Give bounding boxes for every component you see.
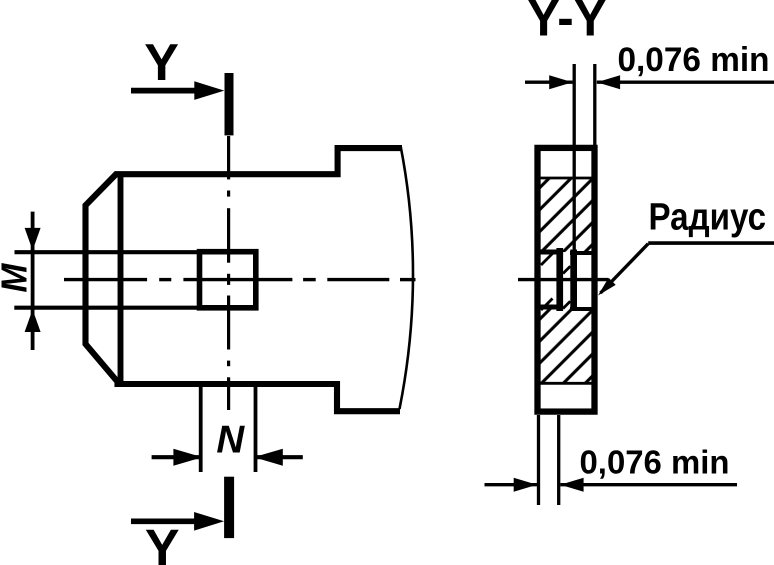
vertical centerline (dash-dot)	[227, 136, 230, 410]
horizontal centerline (dash-dot)	[64, 278, 416, 281]
slot rectangle (front view)	[200, 252, 256, 308]
section centerline	[518, 278, 608, 281]
dimension N line left segment	[152, 455, 201, 459]
bottom dimension line right segment	[560, 483, 737, 486]
hatch bottom boundary line	[541, 382, 592, 385]
section arrow Y bottom: line	[131, 477, 234, 565]
top dimension arrowhead left-pointing	[597, 75, 620, 89]
svg-text:M: M	[0, 263, 34, 293]
svg-text:Y: Y	[145, 520, 180, 565]
bottom dimension arrowhead right-pointing	[514, 478, 537, 492]
top dimension line left segment	[525, 80, 573, 83]
section arrow Y top: line	[131, 34, 234, 136]
section arrow Y bottom: arrowhead	[194, 512, 224, 531]
slot inner wall bar B	[570, 250, 577, 310]
dimension N line right segment	[256, 455, 303, 459]
top dimension arrowhead right-pointing	[549, 75, 572, 89]
hatched cut area lower block	[541, 308, 592, 383]
top dimension line right segment	[597, 80, 774, 83]
part outline left view	[86, 148, 403, 411]
slot right void bottom line	[570, 307, 595, 311]
dimension N arrowhead right-pointing	[173, 449, 202, 466]
radius leader diagonal	[601, 244, 649, 293]
svg-text:N: N	[216, 419, 245, 462]
dimension M line	[31, 212, 35, 350]
section outer outline	[538, 148, 595, 412]
slot right void top line	[570, 251, 595, 255]
dimension M arrowhead down	[25, 228, 41, 251]
break line	[400, 146, 414, 410]
dimension M arrowhead up	[25, 310, 41, 333]
chamfer edge line	[118, 172, 124, 387]
svg-text:Y-Y: Y-Y	[527, 0, 607, 46]
bottom dimension extension line right	[557, 415, 560, 505]
bottom dimension arrowhead left-pointing	[560, 478, 583, 492]
radius leader arrowhead	[598, 278, 616, 296]
hatch top boundary line	[541, 177, 592, 180]
top dimension extension line left	[573, 64, 576, 253]
svg-text:Радиус: Радиус	[649, 196, 767, 238]
dimension M extension line bottom	[14, 306, 198, 310]
top dimension extension line right	[593, 64, 596, 149]
dimension M extension line top	[15, 250, 199, 254]
slot inner wall bar A	[556, 248, 563, 311]
dimension N extension line right	[254, 386, 258, 472]
bottom dimension line left segment	[485, 483, 538, 486]
svg-text:Y: Y	[144, 34, 179, 92]
hatch marks in slot band	[541, 253, 570, 310]
svg-text:0,076 min: 0,076 min	[580, 444, 730, 481]
bottom dimension extension line left	[537, 415, 540, 505]
section arrow Y bottom: cutting bar	[224, 477, 234, 538]
slot left recess top line	[535, 250, 563, 255]
section arrow Y top: arrowhead	[194, 81, 224, 100]
dimension N extension line left	[199, 386, 203, 472]
hatched cut area upper block	[541, 178, 592, 252]
slot left recess bottom line	[535, 305, 563, 310]
dimension N arrowhead left-pointing	[254, 449, 283, 466]
section arrow Y top: cutting bar	[225, 73, 234, 135]
radius leader shelf	[648, 241, 774, 245]
svg-text:0,076 min: 0,076 min	[618, 41, 770, 79]
